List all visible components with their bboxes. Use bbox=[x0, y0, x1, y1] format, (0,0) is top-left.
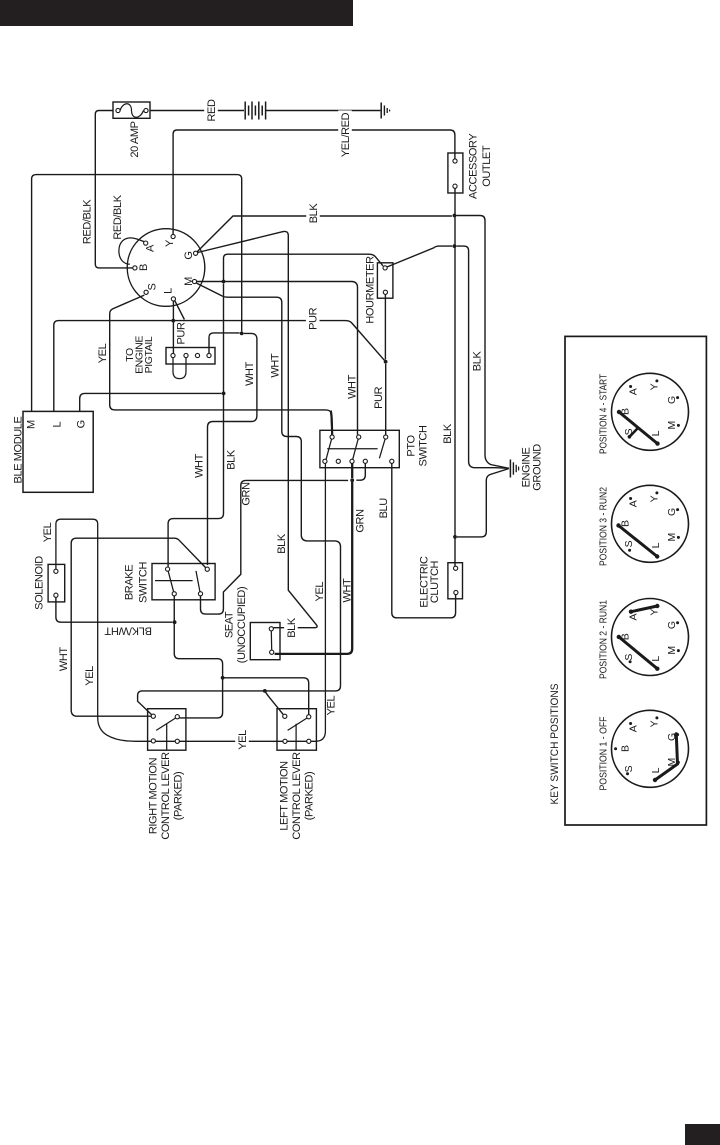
svg-text:LEFT MOTION: LEFT MOTION bbox=[278, 761, 290, 831]
svg-text:SWITCH: SWITCH bbox=[137, 562, 149, 603]
svg-text:BLK: BLK bbox=[472, 351, 484, 372]
svg-text:WHT: WHT bbox=[58, 647, 70, 672]
svg-text:(PARKED): (PARKED) bbox=[303, 772, 315, 821]
svg-text:BLK: BLK bbox=[225, 449, 237, 470]
solenoid K1 connector body bbox=[48, 564, 65, 602]
engine pigtail connector J1 body bbox=[166, 348, 215, 365]
engine ground symbol bbox=[509, 460, 511, 478]
PTO switch blade 2 bbox=[353, 437, 359, 459]
wire RED/BLK left loop (key B feed rail to BLE module M) bbox=[32, 175, 242, 412]
key switch pin M bbox=[192, 279, 196, 283]
wire BLE module G pickup bbox=[80, 393, 222, 411]
wire WHT pigtail pin 4 riser bbox=[209, 333, 240, 353]
wire hourmeter feed WHT from key M rail bbox=[224, 254, 384, 281]
svg-text:POSITION 4 - START: POSITION 4 - START bbox=[598, 373, 609, 454]
svg-text:GROUND: GROUND bbox=[531, 444, 543, 491]
svg-text:A: A bbox=[627, 613, 639, 620]
key switch pin A bbox=[144, 241, 148, 245]
position 3 S terminal dot bbox=[628, 549, 631, 552]
fuse F1 element bbox=[120, 104, 144, 118]
svg-text:BLU: BLU bbox=[378, 498, 390, 519]
wire hourmeter BLK to engine ground bbox=[387, 246, 452, 267]
fuse F1 20 AMP body bbox=[113, 102, 150, 118]
svg-text:Y: Y bbox=[164, 239, 176, 247]
svg-text:PUR: PUR bbox=[373, 386, 385, 408]
svg-text:(PARKED): (PARKED) bbox=[172, 772, 184, 821]
brake switch right blade bbox=[196, 571, 200, 592]
svg-text:POSITION 2 - RUN1: POSITION 2 - RUN1 bbox=[598, 600, 609, 679]
svg-text:ACCESSORY: ACCESSORY bbox=[467, 133, 479, 199]
wire PUR rail (BLE L / key L to PTO) bbox=[54, 321, 385, 412]
svg-text:Y: Y bbox=[649, 383, 661, 390]
wire BLK branch to engine ground (right-most vertical) bbox=[456, 216, 509, 469]
svg-text:CLUTCH: CLUTCH bbox=[429, 560, 441, 603]
key switch pin Y bbox=[171, 234, 175, 238]
svg-text:SEAT: SEAT bbox=[223, 611, 235, 638]
svg-text:YEL: YEL bbox=[237, 730, 249, 750]
svg-text:BLK: BLK bbox=[286, 617, 298, 638]
svg-text:L: L bbox=[52, 421, 64, 427]
svg-text:S: S bbox=[623, 540, 635, 547]
node key M rail junction bbox=[222, 280, 226, 284]
node BLE-G / BLK junction bbox=[222, 392, 226, 396]
position 4 terminal letters bbox=[620, 379, 680, 436]
PTO switch top pins bbox=[330, 435, 334, 439]
position 1 S terminal dot bbox=[626, 772, 629, 775]
key switch pin B bbox=[133, 266, 137, 270]
right motion control lever switch body bbox=[148, 709, 186, 751]
electric clutch pins bbox=[454, 566, 458, 570]
node BLK clutch/ground junction bbox=[453, 535, 457, 539]
svg-text:BRAKE: BRAKE bbox=[124, 565, 136, 600]
svg-text:PUR: PUR bbox=[175, 322, 187, 344]
ground symbol at battery return bbox=[380, 103, 382, 119]
wire BLK key G to seat switch bbox=[198, 231, 318, 627]
svg-text:POSITION 1 - OFF: POSITION 1 - OFF bbox=[598, 717, 609, 791]
key switch pin G bbox=[194, 251, 198, 255]
svg-text:M: M bbox=[666, 533, 678, 542]
svg-text:KEY SWITCH POSITIONS: KEY SWITCH POSITIONS bbox=[549, 684, 561, 805]
svg-text:RIGHT MOTION: RIGHT MOTION bbox=[147, 757, 159, 834]
node BLK accessory junction lower bbox=[453, 244, 457, 248]
label BLK seat switch bbox=[284, 617, 298, 640]
accessory outlet pins bbox=[453, 159, 457, 163]
svg-text:(UNOCCUPIED): (UNOCCUPIED) bbox=[236, 587, 248, 663]
svg-text:BLK: BLK bbox=[276, 533, 288, 554]
svg-text:YEL: YEL bbox=[84, 666, 96, 686]
svg-text:A: A bbox=[627, 388, 639, 395]
label BLK top rail bbox=[306, 202, 320, 225]
svg-text:S: S bbox=[623, 654, 635, 661]
svg-text:S: S bbox=[146, 283, 158, 290]
position 1 B terminal dot bbox=[614, 747, 617, 750]
svg-text:M: M bbox=[183, 277, 195, 286]
wire thick drop into PTO pin 1 bbox=[331, 411, 332, 435]
wire WHT branch to left lever top-left pin bbox=[265, 691, 284, 715]
svg-text:L: L bbox=[650, 767, 662, 773]
svg-text:BLK/WHT: BLK/WHT bbox=[104, 625, 152, 637]
hourmeter pins bbox=[383, 266, 387, 270]
wire YEL solenoid top loop to parking interlock rail bbox=[56, 464, 326, 742]
svg-text:A: A bbox=[627, 500, 639, 507]
seat switch pins bbox=[269, 627, 273, 631]
svg-text:SOLENOID: SOLENOID bbox=[33, 556, 45, 610]
key switch pin L bbox=[171, 297, 175, 301]
svg-text:WHT: WHT bbox=[342, 578, 354, 603]
wire PUR junction down to PTO switch pin 3 bbox=[385, 364, 387, 435]
svg-text:YEL: YEL bbox=[314, 582, 326, 602]
wire WHT key M to hourmeter/PTO pin 2 rail bbox=[197, 282, 358, 435]
key switch pin S bbox=[144, 290, 148, 294]
wire hourmeter to PUR junction bbox=[384, 294, 386, 359]
svg-text:S: S bbox=[623, 765, 635, 772]
node PUR hourmeter junction bbox=[384, 360, 388, 364]
PTO switch bottom pins bbox=[323, 459, 327, 463]
hourmeter connector body bbox=[377, 263, 393, 298]
battery B1 bbox=[244, 102, 246, 120]
PTO switch blade 3 bbox=[379, 437, 385, 458]
svg-text:BLE MODULE: BLE MODULE bbox=[12, 416, 24, 483]
position 2 key bar B-L bbox=[619, 637, 658, 669]
position 1 terminal letters bbox=[620, 716, 680, 773]
key switch keyway tab from pin A bbox=[119, 238, 145, 264]
left lever blade tap bbox=[295, 724, 297, 751]
svg-text:G: G bbox=[666, 396, 678, 404]
svg-text:WHT: WHT bbox=[244, 361, 256, 386]
svg-text:RED/BLK: RED/BLK bbox=[81, 199, 93, 244]
node WHT lever branch junction bbox=[263, 689, 267, 693]
wire GRN brake bottom-right to PTO pin 4 bbox=[201, 480, 349, 614]
svg-text:PTO: PTO bbox=[405, 435, 417, 457]
svg-text:BLK: BLK bbox=[442, 423, 454, 444]
key switch positions panel border bbox=[565, 336, 706, 825]
PTO switch blade 1 bbox=[326, 437, 332, 459]
svg-text:A: A bbox=[627, 725, 639, 732]
svg-text:RED: RED bbox=[206, 99, 218, 121]
wire junction to left lever top-right pin bbox=[223, 678, 309, 715]
BLE module U1 body bbox=[23, 411, 93, 492]
brake switch SW2 body bbox=[152, 564, 215, 600]
svg-text:B: B bbox=[138, 264, 150, 271]
top header black bar bbox=[0, 0, 353, 26]
svg-text:CONTROL LEVER: CONTROL LEVER bbox=[160, 752, 172, 840]
svg-text:B: B bbox=[620, 520, 632, 527]
solenoid pins bbox=[54, 569, 58, 573]
svg-text:M: M bbox=[666, 646, 678, 655]
wire key L to pigtail pin 1 bbox=[172, 301, 174, 353]
pigtail jumper loop pins 1-2 bbox=[173, 358, 186, 379]
svg-text:GRN: GRN bbox=[240, 482, 252, 506]
node lever feed junction bbox=[221, 676, 225, 680]
position 3 terminal letters bbox=[620, 491, 680, 548]
pigtail pins 1-4 bbox=[171, 353, 175, 357]
key position circle 2 (RUN1) bbox=[612, 599, 689, 676]
svg-text:L: L bbox=[650, 430, 662, 436]
svg-text:HOURMETER: HOURMETER bbox=[364, 256, 376, 324]
svg-text:WHT: WHT bbox=[346, 374, 358, 399]
brake switch pins bbox=[166, 567, 170, 571]
wire WHT key M lower run to motion levers bbox=[138, 283, 341, 715]
fuse pins bbox=[116, 108, 120, 112]
wire WHT loop (pigtail junction to brake switch top-right) bbox=[208, 333, 257, 565]
svg-text:G: G bbox=[183, 251, 195, 259]
wire BLU PTO pin 5 to electric clutch bbox=[392, 464, 456, 618]
brake switch common bar bbox=[155, 580, 193, 582]
accessory outlet connector body bbox=[448, 153, 463, 193]
svg-text:G: G bbox=[666, 508, 678, 516]
electric clutch connector body bbox=[448, 563, 463, 599]
right lever blade bbox=[156, 718, 176, 731]
svg-text:GRN: GRN bbox=[354, 509, 366, 533]
wire battery feed RED (fuse to battery) bbox=[150, 110, 244, 112]
wire engine ground lower loop from clutch junction bbox=[457, 469, 509, 537]
key position circle 3 (RUN2) bbox=[612, 485, 689, 562]
wire BLK key G to accessory junction bbox=[197, 216, 452, 252]
svg-text:M: M bbox=[25, 420, 37, 429]
svg-text:POSITION 3 - RUN2: POSITION 3 - RUN2 bbox=[598, 487, 609, 566]
svg-text:G: G bbox=[75, 420, 87, 428]
svg-text:WHT: WHT bbox=[270, 353, 282, 378]
wire fuse left drop RED/BLK to key switch B bbox=[95, 111, 132, 268]
svg-text:B: B bbox=[620, 745, 632, 752]
right lever blade tap bbox=[166, 724, 168, 751]
brake switch left blade bbox=[168, 571, 173, 592]
svg-text:L: L bbox=[650, 542, 662, 548]
node BLK accessory junction upper bbox=[453, 214, 457, 218]
position 2 key bar A-Y bbox=[631, 606, 657, 612]
wire BLK/WHT solenoid bottom to brake bottom-left junction bbox=[56, 597, 173, 622]
node GRN PTO junction bbox=[350, 478, 354, 482]
svg-text:A: A bbox=[144, 244, 156, 252]
svg-text:Y: Y bbox=[649, 609, 661, 616]
position 1 key bar L-M-G bbox=[655, 734, 678, 780]
node BLE-M rail / WHT loop junction bbox=[240, 332, 244, 336]
svg-text:RED/BLK: RED/BLK bbox=[112, 194, 124, 239]
svg-text:BLK: BLK bbox=[308, 203, 320, 224]
key position circle 4 (START) bbox=[612, 373, 689, 450]
label YEL/RED bbox=[338, 110, 352, 159]
label RED bbox=[204, 99, 218, 122]
svg-text:Y: Y bbox=[649, 495, 661, 502]
right lever pins bbox=[151, 714, 155, 718]
svg-text:YEL: YEL bbox=[42, 522, 54, 542]
svg-text:L: L bbox=[650, 656, 662, 662]
left lever blade bbox=[288, 718, 308, 731]
svg-text:PUR: PUR bbox=[308, 307, 320, 329]
key switch SW1 housing circle bbox=[127, 229, 205, 307]
left lever pins bbox=[283, 714, 287, 718]
svg-text:Y: Y bbox=[649, 720, 661, 727]
label YEL lever rail bbox=[235, 729, 249, 752]
node BLK/WHT brake junction bbox=[173, 620, 177, 624]
svg-text:WHT: WHT bbox=[194, 453, 206, 478]
svg-text:YEL: YEL bbox=[326, 696, 338, 716]
svg-text:SWITCH: SWITCH bbox=[417, 425, 429, 466]
wire accessory outlet drop to electric clutch (BLK vertical) bbox=[454, 188, 456, 566]
wire key L diagonal to PUR rail bbox=[175, 301, 185, 320]
seat switch SW3 body bbox=[250, 623, 280, 660]
wire battery to engine-ground stub bbox=[266, 110, 381, 112]
svg-text:L: L bbox=[162, 288, 174, 294]
left motion control lever switch body bbox=[277, 709, 316, 751]
position 3 key bar bbox=[619, 526, 658, 557]
svg-text:G: G bbox=[666, 621, 678, 629]
svg-text:OUTLET: OUTLET bbox=[481, 145, 493, 187]
node key L / PUR rail junction bbox=[171, 319, 175, 323]
position 2 S terminal dot bbox=[629, 660, 632, 663]
label PUR mid rail bbox=[306, 308, 320, 331]
svg-text:M: M bbox=[666, 421, 678, 430]
wire YEL key S to PTO switch pin (top row 1) bbox=[110, 295, 332, 435]
seat switch blade bbox=[270, 631, 272, 650]
wire BLK key M junction down to brake switch top-left bbox=[168, 284, 223, 567]
bottom-right page corner black block bbox=[685, 1124, 720, 1145]
key position circle 1 (OFF) bbox=[612, 710, 689, 787]
wire YEL brake switch top-right feed bbox=[71, 538, 205, 716]
svg-text:YEL: YEL bbox=[97, 343, 109, 363]
wire brake bottom-left to motion lever top-right pins bbox=[174, 596, 222, 718]
svg-text:CONTROL LEVER: CONTROL LEVER bbox=[291, 752, 303, 840]
PTO switch common bar bbox=[327, 448, 377, 450]
wire GRN PTO pin 3 to seat switch (thick) bbox=[351, 464, 353, 479]
PTO switch SW4 body bbox=[320, 430, 399, 467]
svg-text:20 AMP: 20 AMP bbox=[129, 121, 141, 157]
wire YEL/RED key Y to accessory outlet bbox=[173, 130, 455, 234]
svg-text:YEL/RED: YEL/RED bbox=[340, 112, 352, 157]
position 4 key bar bbox=[619, 412, 658, 444]
position 2 terminal letters bbox=[620, 605, 680, 662]
svg-text:PIGTAIL: PIGTAIL bbox=[143, 336, 155, 373]
